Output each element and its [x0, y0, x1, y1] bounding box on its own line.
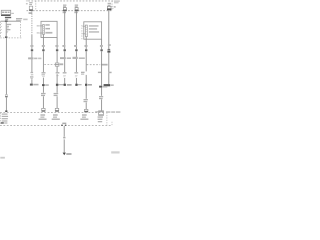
boundary right end tick: [111, 122, 113, 126]
device connector block: [99, 111, 104, 116]
wire 86 labels below boundary: [80, 114, 88, 120]
connector label above on wire 101: [100, 45, 103, 47]
dashed link label right: [101, 64, 108, 66]
wire from C100 solid segment: [31, 35, 33, 49]
wire 101 to device: [101, 99, 103, 110]
wire 57 colour label: [56, 72, 60, 76]
wire 86 lower run: [85, 75, 87, 84]
device label left: [95, 111, 98, 112]
wire 57 below C124: [56, 66, 58, 72]
splice label right of wire 86: [88, 84, 92, 86]
connector at switch output: [5, 36, 7, 38]
ignition switch terminal ticks: [1, 23, 2, 32]
wire 57 lower run: [56, 74, 58, 84]
page footer text right: [111, 151, 119, 153]
connector C2 drop at x64.7: [63, 5, 67, 14]
bus section divider dashed: [35, 1, 37, 11]
option note row: [28, 57, 85, 60]
inline connector C105: [5, 95, 8, 98]
inline connector on wire 76: [75, 49, 77, 51]
wire ignition feed inside switch: [5, 22, 7, 36]
K2 resistor element: [85, 25, 88, 36]
K2 element tail to box bottom: [85, 37, 87, 40]
wire 108 lower run: [108, 53, 110, 85]
ground label right: [66, 153, 71, 155]
bus right end cap dashed: [111, 1, 113, 11]
inline connector on wire 32: [31, 49, 33, 51]
wire 32 colour label stack: [30, 72, 33, 79]
wire 57 bottom label: [54, 93, 59, 96]
end connector left wire: [5, 110, 7, 112]
wire 57 bottom run: [56, 86, 58, 93]
wire 32 lower run: [31, 79, 33, 83]
end connector wire 86: [84, 109, 88, 112]
bus header text far left: [26, 0, 28, 4]
connector C3 drop at x76.4: [74, 5, 78, 14]
connector label above on wire 86: [85, 45, 88, 47]
PDC box K2: [84, 22, 102, 39]
top bus dashed line upper: [28, 0, 113, 2]
inline connector on wire 86: [85, 49, 87, 51]
end connector wire 43: [42, 108, 46, 111]
ignition switch wiper arrow: [5, 20, 8, 21]
wire 57 to boundary: [56, 96, 58, 108]
K2 pin stubs: [83, 26, 86, 34]
ignition switch dashed box: [0, 21, 21, 38]
ground symbol G100: [63, 153, 66, 156]
ground wire lower: [63, 140, 65, 153]
dashed option link to C124: [44, 63, 55, 65]
connector label above on wire 76: [74, 45, 77, 47]
wire 86 below K2: [85, 39, 87, 49]
inline connector on wire 43: [42, 49, 44, 51]
splice label right: [67, 84, 72, 86]
wire 43 colour label: [42, 72, 46, 77]
wire 86 colour label left: [81, 72, 85, 75]
connector label above on wire 64: [62, 45, 65, 47]
wire from C2 down: [64, 11, 66, 49]
fuse number label: [5, 17, 11, 20]
wire 57 mid run: [56, 51, 58, 63]
ground wire label: [63, 137, 65, 140]
connector label right: [103, 86, 107, 88]
wire 108 colour label: [108, 72, 111, 74]
wire from C4 down: [108, 10, 110, 49]
wire 64 colour label: [63, 72, 67, 77]
wire left column lower: [5, 97, 7, 110]
wire 43 below K1: [42, 38, 44, 50]
C124 label right: [60, 63, 64, 65]
K1 resistor element: [43, 25, 45, 35]
wire from C100 dashed upper segment: [31, 11, 33, 35]
relay box K1: [41, 21, 57, 37]
ignition switch name label above: [16, 18, 28, 21]
inline connector on wire 43 lower: [42, 84, 45, 86]
connector label above on wire 57: [55, 45, 58, 47]
top bus dashed line lower: [27, 10, 112, 12]
wire left column down: [5, 38, 7, 95]
wire 43 to boundary: [42, 96, 44, 108]
wire 86 bottom label: [84, 99, 88, 102]
wire 101 mid run: [101, 51, 103, 85]
ignition switch position labels: [7, 24, 12, 33]
wire 64 mid run: [64, 51, 66, 72]
connector label right: [45, 84, 49, 86]
ground legend rows: [1, 114, 8, 124]
dashed option link right: [87, 64, 101, 66]
wire 57 labels below boundary: [52, 114, 60, 120]
wire 101 bottom run: [101, 88, 103, 96]
terminal label right of wire 108: [111, 84, 114, 86]
K1 element tail to box bottom: [42, 35, 44, 38]
cowl boundary dashed line upper: [0, 112, 105, 114]
wire 32 mid run: [31, 51, 33, 72]
inline connector pair on wire 108: [107, 49, 110, 53]
splice terminal on wire 57: [56, 84, 58, 86]
wire 86 mid run: [85, 51, 87, 71]
wire 57 from K1 right edge: [56, 38, 58, 50]
device text rows below: [98, 116, 103, 122]
wire 76 colour label: [74, 72, 78, 77]
splice dot on wire 76: [75, 84, 77, 86]
wire from C3 down: [75, 11, 77, 49]
ground wire down: [63, 126, 65, 137]
wire 76 lower run: [75, 78, 77, 84]
fuse block header box: [1, 10, 14, 14]
fuse block busbar: [1, 15, 11, 16]
wire 101 bottom label: [99, 96, 103, 99]
wire 101 colour label left: [98, 72, 101, 73]
wire 43 labels below boundary: [39, 114, 47, 120]
left edge dashed segment lower: [0, 113, 2, 124]
wire 43 lower run: [42, 78, 44, 85]
top right header text: [114, 1, 120, 4]
wire 86 to boundary: [85, 102, 87, 109]
K1 pin stubs left: [37, 25, 43, 34]
connector pair C124 on wire 57: [55, 63, 59, 66]
splice bus segment wire57 to wire64: [58, 84, 63, 86]
wire 43 bottom label: [41, 93, 46, 96]
splice dot on wire 86: [85, 84, 87, 86]
inline connector on wire 64: [64, 49, 66, 51]
page footer text left: [0, 157, 5, 159]
splice symbol on lower boundary: [61, 123, 66, 126]
wire 76 mid run: [75, 51, 77, 72]
C4 pin ticks and text right: [112, 6, 115, 9]
wire 43 mid run: [42, 51, 44, 72]
connector C4 drop at x108.8: [107, 3, 111, 10]
wire 64 lower run: [64, 78, 66, 84]
K1 text rows: [45, 24, 52, 33]
inline connector on wire 57: [56, 49, 58, 51]
K2 outside dashed edge: [81, 25, 83, 39]
wire 86 bottom run: [85, 86, 87, 99]
end terminal wire 108: [104, 84, 111, 86]
boundary right tail text: [106, 111, 110, 113]
connector label above on wire 43: [42, 45, 45, 47]
boundary vertical dashed connector: [106, 113, 108, 126]
terminal label right of wire 32: [33, 84, 38, 86]
splice dot on wire 64: [64, 84, 66, 86]
end terminal wire 32: [30, 84, 33, 86]
wire 43 bottom run: [42, 86, 44, 93]
cowl boundary dashed line lower: [0, 125, 112, 127]
K2 text rows: [89, 25, 99, 32]
connector label above on wire 108: [108, 44, 111, 46]
inline connector on wire 101: [100, 49, 102, 51]
splice bus segment right of dot: [78, 84, 82, 86]
connector C100 at bus left end: [29, 2, 33, 14]
connector label above on wire 32: [30, 45, 33, 47]
end connector wire 57: [55, 108, 59, 111]
inline connector on wire 101 lower: [99, 86, 102, 88]
wire 101 from K2 right edge: [101, 39, 103, 49]
